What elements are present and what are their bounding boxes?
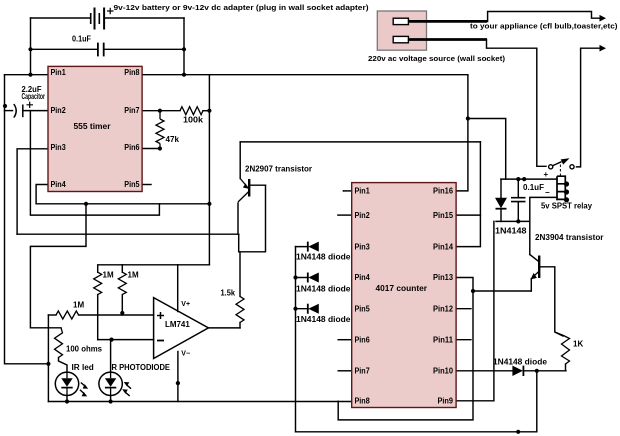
svg-text:+: +: [544, 170, 549, 179]
node IR led bottom: [65, 399, 69, 403]
wire top rail 555 to 4017 Pin16: [209, 75, 468, 191]
resistor R5 1M horizontal: [56, 311, 79, 319]
wire plus input row: [79, 314, 154, 316]
wire 4017 Pin10 row to diode: [456, 370, 512, 372]
node 100k right Vcc: [207, 109, 211, 113]
node photodiode bottom: [109, 399, 113, 403]
svg-text:Pin6: Pin6: [355, 335, 371, 344]
svg-text:Pin5: Pin5: [124, 180, 140, 189]
wire battery top right segment: [104, 17, 184, 19]
svg-text:0.1uF: 0.1uF: [523, 183, 544, 192]
relay switch arm with arrowhead: [553, 162, 562, 166]
wire 2N3904 emitter drop: [530, 279, 532, 291]
wire 4017 Pin13 drop: [338, 278, 473, 420]
wire 1M2 top lead: [121, 265, 123, 272]
svg-text:1M: 1M: [128, 271, 139, 280]
wire 2N3904 base lead to 1K: [540, 267, 563, 336]
IR led emission arrows: [80, 383, 85, 394]
transistor Q2 emitter diagonal with arrow out: [532, 272, 539, 278]
wall socket prong top: [393, 18, 408, 24]
wire relay plus rail: [501, 178, 557, 180]
svg-text:R PHOTODIODE: R PHOTODIODE: [112, 363, 171, 372]
svg-text:1N4148 diode: 1N4148 diode: [296, 253, 351, 262]
node photodiode minus input: [109, 338, 113, 342]
svg-text:1N4148 diode: 1N4148 diode: [296, 285, 351, 294]
svg-text:Pin4: Pin4: [355, 273, 371, 282]
wire 1M horizontal left lead: [48, 314, 56, 316]
wire 4017 Pin2 stub: [338, 214, 352, 216]
node diode bus pin4: [293, 275, 297, 279]
IR led triangle and bar: [61, 378, 72, 387]
wire 4017 Pin3 diode row: [296, 246, 457, 248]
wire AC neutral down to switch: [487, 39, 547, 166]
wire AC hot thin riser and appliance arrow top: [488, 12, 601, 22]
svg-text:Pin11: Pin11: [433, 335, 454, 344]
wire 4017 Pin7 stub: [338, 370, 352, 372]
wire 2.2uF cap left lead: [5, 110, 13, 112]
svg-text:Pin10: Pin10: [433, 367, 454, 376]
svg-text:IR led: IR led: [72, 363, 94, 372]
wire opamp output to 1.5k bottom: [208, 327, 240, 329]
node 2.2uF left: [3, 104, 7, 108]
wire 2N3904 emitter row to Pin13 line: [473, 290, 531, 292]
svg-text:555 timer: 555 timer: [74, 122, 111, 131]
IR photodiode receiving arrows: [125, 385, 131, 396]
svg-text:1K: 1K: [573, 340, 583, 349]
svg-text:2N2907 transistor: 2N2907 transistor: [245, 165, 312, 174]
resistor R8 1K: [555, 332, 570, 364]
svg-text:4017 counter: 4017 counter: [376, 284, 428, 293]
wire drop from Pin4 bus to 100ohm feed: [30, 204, 86, 328]
resistor R2 47k zigzag: [156, 111, 164, 149]
node Pin4 bus left: [84, 202, 88, 206]
wire 2N3904 collector diagonal: [530, 255, 539, 262]
wire 2.2uF cap right lead to 555 Pin2: [23, 110, 48, 112]
wire IR led bottom lead: [66, 396, 68, 402]
node diode bus pin5: [293, 307, 297, 311]
svg-text:−: −: [545, 188, 550, 197]
wire 4017 Pin5 diode row: [296, 308, 457, 310]
svg-text:Pin4: Pin4: [51, 180, 67, 189]
wire relay cap stubs: [517, 179, 519, 221]
resistor R3 1M vertical left: [94, 272, 102, 294]
node relay cap top: [516, 177, 520, 181]
wire opamp V+ lead: [177, 265, 179, 312]
svg-text:9v-12v battery or 9v-12v dc ad: 9v-12v battery or 9v-12v dc adapter (plu…: [114, 3, 370, 12]
wire 4017 Pin11 stub: [456, 339, 471, 341]
wire 0.1uF cap left lead: [31, 48, 98, 50]
node left border to 1M drop: [46, 362, 50, 366]
IR led circle: [55, 372, 78, 395]
svg-text:100 ohms: 100 ohms: [66, 345, 103, 354]
svg-text:Pin14: Pin14: [433, 242, 454, 251]
resistor R4 1M vertical right: [118, 272, 126, 294]
diode D2 1N4148 at Pin10 (pointing right): [512, 366, 523, 376]
transistor Q1 collector diagonal: [238, 192, 249, 203]
wire junction down to bottom right rail: [296, 371, 537, 432]
wire 555 Pin8 row to Vcc corner: [142, 74, 209, 76]
node battery/0.1uF right: [182, 47, 186, 51]
resistor R1 100k zigzag: [180, 107, 203, 115]
wire 4017 Pin12 stub: [456, 308, 471, 310]
transistor Q1 2N2907 bar: [248, 179, 250, 197]
svg-text:Pin3: Pin3: [355, 242, 371, 251]
svg-text:Pin2: Pin2: [355, 211, 371, 220]
IR photodiode triangle and bar: [105, 378, 116, 387]
IR photodiode circle: [99, 372, 122, 395]
diode D5 1N4148 at 4017 Pin5 (pointing left): [308, 304, 319, 314]
wire 555 Pin7 row to 100k: [142, 110, 180, 112]
node emitter Pin13: [471, 289, 475, 293]
wire switched line up to appliance arrow 2: [577, 48, 601, 167]
arrowhead appliance top: [600, 15, 607, 22]
node relay plus feed: [522, 177, 526, 181]
wire opamp V- drop: [177, 352, 179, 402]
wire relay minus rail: [496, 220, 530, 222]
wire 100ohm bottom jog to IR led: [59, 358, 68, 373]
node battery/0.1uF left: [28, 47, 32, 51]
wire relay diode vertical: [500, 179, 502, 221]
wire 555 Pin4 row and Vcc bus: [36, 185, 209, 204]
wire 4017 Pin4 diode row: [296, 277, 457, 279]
svg-text:220v ac voltage source (wall s: 220v ac voltage source (wall socket): [368, 54, 506, 63]
wire node to 1.5k top and base riser: [239, 185, 266, 296]
relay switch left contact: [549, 165, 553, 169]
AC thick line hot: [408, 20, 487, 23]
wire diode bus down left of 4017: [295, 247, 297, 432]
arrowhead appliance bottom: [600, 45, 607, 52]
svg-text:2N3904 transistor: 2N3904 transistor: [535, 233, 604, 242]
node Pin1 rail: [28, 73, 32, 77]
op-amp minus input symbol: [157, 340, 164, 342]
svg-text:to your appliance (cfl bulb,to: to your appliance (cfl bulb,toaster,etc): [470, 22, 618, 31]
op-amp U3 LM741 triangle: [154, 298, 209, 359]
svg-text:Pin1: Pin1: [355, 187, 371, 196]
wire Pin1-line lower segment to bus y215: [30, 111, 159, 216]
battery B1 plates: [91, 8, 104, 30]
wire photodiode bottom lead: [110, 396, 112, 402]
wire 2N2907 base lead: [250, 184, 266, 186]
diode D3 1N4148 at 4017 Pin3 (pointing left): [308, 242, 319, 252]
node Pin8 rail: [182, 73, 186, 77]
svg-text:Pin3: Pin3: [51, 143, 67, 152]
svg-text:Pin9: Pin9: [438, 397, 454, 406]
wire collector vertical 2N2907: [237, 203, 239, 234]
svg-text:1M: 1M: [103, 271, 114, 280]
wire minus input row: [98, 339, 154, 341]
wire branch to relay plus: [468, 119, 506, 180]
wire 555 Pin3 row: [17, 149, 48, 234]
diode D4 1N4148 at 4017 Pin4 (pointing left): [308, 273, 319, 283]
wire 2N2907 emitter riser to rail: [239, 142, 241, 179]
relay actuation dashed line: [559, 165, 561, 177]
wire 1M2 bottom lead: [121, 295, 123, 315]
svg-text:Pin7: Pin7: [124, 106, 140, 115]
wire Pin3/collector bus y=234: [17, 233, 239, 235]
node Pin16 branch: [466, 116, 470, 120]
wire 100k right lead to Vcc: [203, 110, 209, 112]
capacitor C2 2.2uF electrolytic: [14, 104, 23, 118]
node Pin4 bus Vcc: [207, 202, 211, 206]
svg-text:Pin7: Pin7: [355, 367, 371, 376]
wire 0.1uF cap right lead: [104, 48, 184, 50]
wire 555 Pin5 stub: [142, 184, 151, 186]
wire diode cathode to 1K junction: [524, 370, 566, 372]
wall socket prong bottom: [393, 36, 408, 42]
wire 1K bottom lead: [565, 364, 567, 371]
svg-text:0.1uF: 0.1uF: [72, 35, 91, 44]
plus sign of C2: [27, 102, 34, 108]
wire 4017 Pin9 row riser to relay minus rail: [456, 221, 494, 400]
wire 1M1 bottom lead to minus input: [97, 295, 99, 340]
svg-text:1N4148 diode: 1N4148 diode: [493, 358, 548, 367]
transistor Q1 emitter diagonal with arrow: [240, 179, 248, 189]
svg-text:Pin2: Pin2: [51, 106, 67, 115]
svg-text:1M: 1M: [73, 301, 84, 310]
node 1M2 bottom: [120, 311, 124, 315]
wire left border vertical: [5, 75, 49, 364]
node V- mid dot: [176, 381, 180, 385]
relay K1 coil: [557, 176, 565, 200]
svg-text:Pin5: Pin5: [355, 304, 371, 313]
svg-text:Pin16: Pin16: [433, 187, 454, 196]
svg-text:100k: 100k: [183, 116, 204, 125]
svg-text:Pin12: Pin12: [433, 304, 454, 313]
wall socket box (220v ac source): [377, 11, 426, 50]
wire Vcc vertical x=209.4: [208, 75, 210, 265]
wire coil minus to 2N3904 collector: [530, 197, 557, 254]
svg-text:Pin1: Pin1: [51, 68, 67, 77]
wire 555 Pin1 row: [5, 74, 49, 76]
op-amp plus input symbol: [157, 312, 164, 319]
wire rail 2N2907 emitter to 4017 Pin14/15 bus: [240, 141, 480, 143]
wire battery top left segment: [31, 17, 91, 19]
svg-text:Capacitor: Capacitor: [22, 92, 46, 101]
svg-text:LM741: LM741: [165, 320, 190, 329]
wire photodiode top lead: [110, 340, 112, 373]
svg-text:1.5k: 1.5k: [221, 289, 236, 298]
wire 1.5k bottom lead: [239, 323, 241, 328]
svg-text:47k: 47k: [166, 135, 180, 144]
resistor R7 1.5k: [236, 296, 244, 322]
node bottom right rail: [516, 430, 520, 434]
wire 4017 internal pin rows crossing box (pin rows inside): [343, 190, 345, 192]
wire 4017 Pin1 stub: [344, 190, 352, 192]
wire battery left drop to Pin1 rail: [30, 18, 32, 75]
plus sign of battery: [107, 8, 114, 14]
svg-text:Pin8: Pin8: [124, 68, 140, 77]
wire bottom rail (ground) to 4017 Pin8: [48, 401, 351, 403]
AC thick line neutral: [408, 38, 487, 41]
wire 4017 Pin14 row riser: [456, 142, 480, 247]
svg-text:1N4148: 1N4148: [495, 227, 527, 236]
svg-text:Pin13: Pin13: [433, 273, 454, 282]
svg-text:1N4148 diode: 1N4148 diode: [296, 315, 351, 324]
diode D1 1N4148 at relay (cathode down): [495, 198, 507, 208]
svg-text:Pin8: Pin8: [355, 397, 371, 406]
svg-text:5v SPST relay: 5v SPST relay: [541, 202, 593, 211]
svg-text:V−: V−: [181, 351, 190, 358]
wire 4017 Pin15 row: [456, 214, 480, 216]
wire 1M left corner down to bottom rail: [47, 315, 49, 402]
node 47k bottom: [158, 146, 162, 150]
wire Vcc rail to 1M tops: [98, 265, 210, 272]
node relay cap bottom: [516, 219, 520, 223]
wire 4017 Pin6 stub: [338, 339, 352, 341]
IC U1 555 timer box: [48, 66, 142, 191]
node 1K diode junction: [535, 369, 539, 373]
capacitor C3 0.1uF at relay plates: [511, 198, 526, 202]
wire 555 Pin6 row to 47k bottom: [142, 148, 160, 150]
resistor R6 100 ohms: [55, 328, 63, 358]
svg-text:V+: V+: [181, 301, 190, 308]
wire battery right drop to Pin8 rail: [183, 18, 185, 75]
IC U2 4017 counter box: [352, 183, 456, 408]
svg-text:Pin6: Pin6: [124, 143, 140, 152]
transistor Q2 2N3904 bar: [538, 256, 540, 279]
svg-text:Pin15: Pin15: [433, 211, 454, 220]
relay switch right contact: [570, 165, 574, 169]
capacitor C1 0.1uF plates: [98, 43, 104, 57]
node 47k top: [158, 109, 162, 113]
